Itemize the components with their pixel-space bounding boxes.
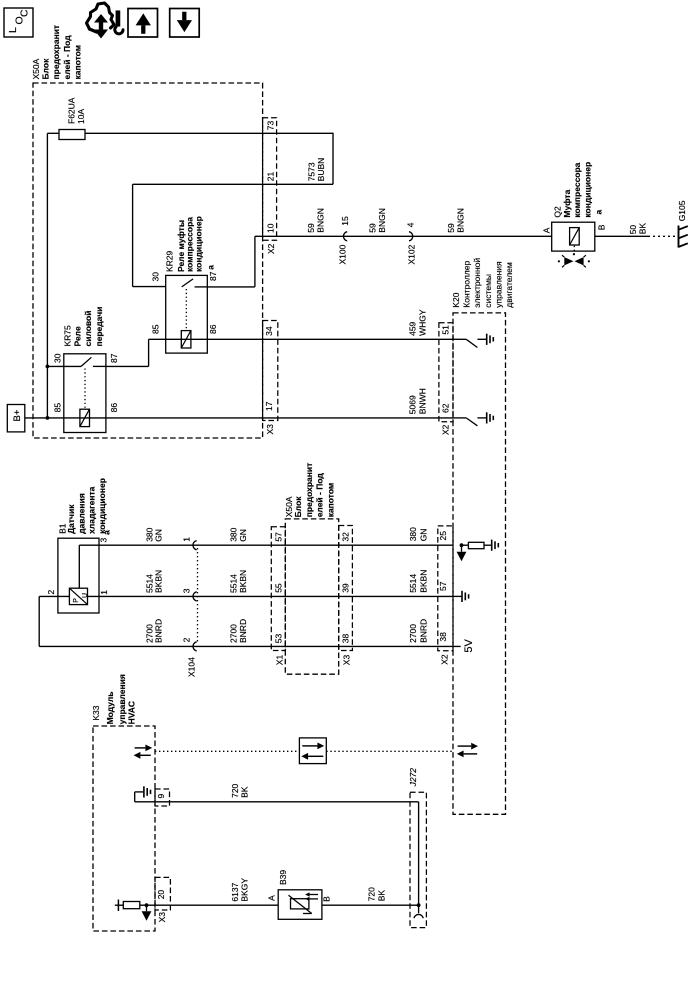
svg-text:38: 38	[438, 632, 448, 642]
svg-text:предохранит: предохранит	[51, 25, 61, 80]
svg-text:K20: K20	[451, 292, 461, 307]
svg-text:5V: 5V	[463, 638, 475, 652]
svg-text:U: U	[82, 593, 89, 598]
svg-text:X3: X3	[341, 655, 351, 666]
svg-text:кондиционер: кондиционер	[194, 216, 204, 272]
svg-text:85: 85	[150, 324, 160, 334]
svg-text:Блок: Блок	[41, 58, 51, 80]
svg-text:A: A	[541, 227, 551, 233]
svg-text:32: 32	[340, 532, 350, 542]
svg-text:59: 59	[446, 223, 456, 233]
svg-text:P: P	[73, 598, 80, 603]
svg-text:BKBN: BKBN	[418, 570, 428, 593]
svg-text:2700: 2700	[408, 624, 418, 643]
svg-text:57: 57	[274, 532, 284, 542]
svg-text:BKBN: BKBN	[154, 570, 164, 593]
svg-text:17: 17	[264, 401, 274, 411]
svg-text:73: 73	[265, 120, 275, 130]
svg-text:86: 86	[208, 324, 218, 334]
svg-text:а: а	[102, 530, 112, 535]
svg-text:K33: K33	[91, 705, 101, 720]
svg-text:предохранит: предохранит	[304, 463, 314, 518]
svg-text:15: 15	[340, 216, 350, 226]
svg-text:BNRD: BNRD	[154, 619, 164, 643]
svg-text:X104: X104	[187, 657, 197, 677]
svg-text:GN: GN	[418, 529, 428, 542]
svg-text:кондиционер: кондиционер	[97, 478, 107, 534]
svg-text:25: 25	[438, 531, 448, 541]
svg-text:компрессора: компрессора	[572, 162, 582, 217]
svg-text:87: 87	[208, 271, 218, 281]
svg-text:Датчик: Датчик	[66, 504, 76, 534]
svg-text:55: 55	[274, 583, 284, 593]
svg-text:459: 459	[408, 321, 418, 335]
svg-text:BNGN: BNGN	[377, 208, 387, 233]
svg-text:3: 3	[182, 588, 192, 593]
svg-text:хладагента: хладагента	[87, 486, 97, 534]
svg-text:34: 34	[264, 326, 274, 336]
svg-text:39: 39	[340, 583, 350, 593]
svg-text:62: 62	[440, 403, 450, 413]
svg-text:5514: 5514	[408, 574, 418, 593]
svg-text:2: 2	[182, 637, 192, 642]
svg-text:BNRD: BNRD	[238, 619, 248, 643]
svg-text:BKBN: BKBN	[238, 570, 248, 593]
svg-text:X100: X100	[338, 244, 348, 264]
svg-text:BNGN: BNGN	[316, 208, 326, 233]
svg-text:10: 10	[265, 223, 275, 233]
svg-text:GN: GN	[154, 529, 164, 542]
svg-text:GN: GN	[238, 529, 248, 542]
svg-text:давления: давления	[76, 493, 86, 534]
svg-text:X2: X2	[439, 654, 449, 665]
svg-text:21: 21	[265, 171, 275, 181]
svg-text:X2: X2	[266, 243, 276, 254]
svg-text:87: 87	[109, 353, 119, 363]
svg-text:Блок: Блок	[293, 496, 303, 518]
svg-text:X3: X3	[157, 912, 167, 923]
svg-text:WHGY: WHGY	[417, 309, 427, 336]
svg-text:BNGN: BNGN	[456, 208, 466, 233]
svg-text:X102: X102	[407, 244, 417, 264]
svg-text:Муфта: Муфта	[562, 189, 572, 217]
svg-text:2700: 2700	[228, 624, 238, 643]
svg-text:1: 1	[182, 537, 192, 542]
svg-text:7573: 7573	[307, 162, 317, 181]
svg-text:6137: 6137	[230, 882, 240, 901]
svg-text:J272: J272	[408, 768, 418, 788]
svg-text:C: C	[19, 9, 31, 17]
svg-text:елей - Под: елей - Под	[315, 473, 325, 518]
svg-text:F62UA: F62UA	[67, 97, 77, 124]
svg-text:51: 51	[440, 325, 450, 335]
svg-text:Модуль: Модуль	[105, 691, 115, 724]
svg-text:HVAC: HVAC	[127, 701, 137, 724]
svg-text:20: 20	[156, 890, 166, 900]
svg-text:720: 720	[367, 887, 377, 901]
svg-text:720: 720	[230, 783, 240, 797]
svg-text:30: 30	[150, 272, 160, 282]
svg-text:BK: BK	[239, 786, 249, 798]
svg-text:KR29: KR29	[165, 250, 175, 272]
svg-text:G105: G105	[677, 200, 687, 221]
svg-text:передачи: передачи	[94, 307, 104, 347]
svg-text:4: 4	[406, 222, 416, 227]
svg-text:L: L	[7, 27, 19, 33]
svg-text:BK: BK	[638, 223, 648, 235]
svg-text:10A: 10A	[76, 109, 86, 124]
svg-text:электронной: электронной	[472, 258, 482, 308]
svg-text:BKGY: BKGY	[239, 878, 249, 902]
svg-text:50: 50	[628, 225, 638, 235]
svg-text:Контроллер: Контроллер	[462, 261, 472, 308]
svg-text:A: A	[266, 895, 276, 901]
svg-text:38: 38	[340, 633, 350, 643]
svg-text:X3: X3	[265, 424, 275, 435]
svg-text:кондиционер: кондиционер	[582, 162, 592, 218]
svg-text:57: 57	[438, 581, 448, 591]
svg-text:380: 380	[228, 527, 238, 541]
svg-text:B: B	[321, 896, 331, 902]
svg-text:BNWH: BNWH	[417, 388, 427, 414]
svg-text:двигателем: двигателем	[504, 262, 514, 308]
svg-text:2: 2	[46, 590, 56, 595]
svg-text:системы: системы	[483, 274, 493, 308]
svg-text:59: 59	[367, 223, 377, 233]
svg-text:85: 85	[53, 403, 63, 413]
svg-text:BNRD: BNRD	[418, 619, 428, 643]
svg-text:B: B	[596, 224, 606, 230]
svg-text:X1: X1	[275, 655, 285, 666]
svg-text:елей - Под: елей - Под	[62, 35, 72, 80]
svg-text:капотом: капотом	[325, 483, 335, 518]
svg-text:а: а	[593, 210, 603, 215]
svg-text:1: 1	[99, 590, 109, 595]
svg-text:X2: X2	[441, 424, 451, 435]
svg-text:Реле: Реле	[72, 326, 82, 346]
svg-text:30: 30	[53, 353, 63, 363]
svg-text:силовой: силовой	[83, 311, 93, 347]
svg-text:управления: управления	[494, 261, 504, 308]
svg-text:9: 9	[156, 794, 166, 799]
svg-text:BK: BK	[377, 890, 387, 902]
svg-text:5069: 5069	[408, 395, 418, 414]
svg-text:380: 380	[408, 527, 418, 541]
svg-text:B39: B39	[278, 870, 288, 885]
svg-text:86: 86	[109, 403, 119, 413]
svg-text:капотом: капотом	[73, 45, 83, 80]
svg-text:3: 3	[99, 538, 109, 543]
svg-text:B+: B+	[12, 409, 23, 421]
svg-text:5514: 5514	[228, 574, 238, 593]
svg-text:53: 53	[274, 633, 284, 643]
svg-text:BUBN: BUBN	[316, 158, 326, 182]
svg-text:KR75: KR75	[63, 325, 73, 347]
svg-text:а: а	[206, 265, 216, 270]
svg-text:59: 59	[306, 223, 316, 233]
